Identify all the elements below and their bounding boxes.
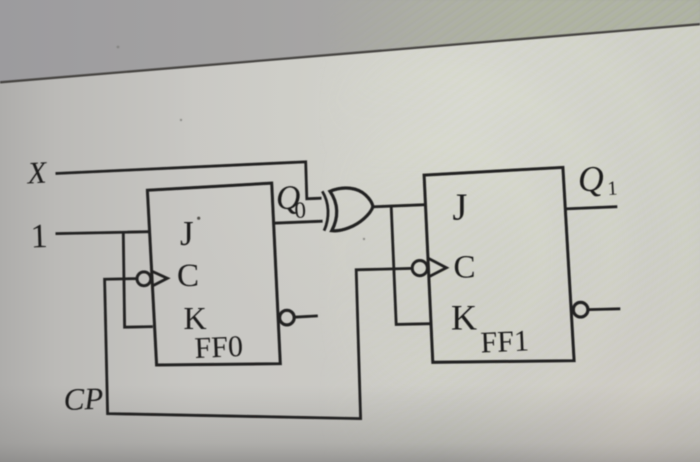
svg-text:CP: CP (63, 381, 104, 417)
svg-text:FF0: FF0 (194, 330, 244, 365)
svg-text:J: J (180, 214, 194, 253)
svg-text:K: K (451, 298, 477, 338)
svg-text:C: C (454, 250, 476, 286)
svg-text:Q: Q (577, 158, 605, 199)
svg-text:J: J (453, 187, 468, 229)
svg-text:FF1: FF1 (480, 324, 530, 359)
svg-text:X: X (25, 154, 49, 190)
svg-text:1: 1 (30, 218, 48, 256)
svg-text:1: 1 (607, 178, 618, 200)
svg-text:C: C (177, 258, 199, 294)
svg-text:0: 0 (294, 197, 307, 223)
svg-text:K: K (184, 300, 207, 336)
